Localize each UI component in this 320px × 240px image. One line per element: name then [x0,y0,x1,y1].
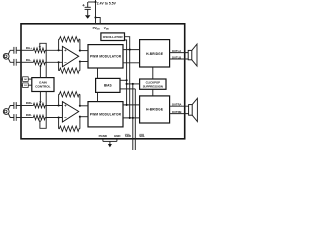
wire bias stub A [120,79,127,81]
wire cap to ground [87,9,89,15]
block PWM MODULATOR left channel [88,45,123,68]
wire cap to pin INL- [16,61,21,63]
speaker left [188,50,192,59]
svg-text:INR+: INR+ [26,101,33,105]
svg-text:INL-: INL- [26,58,32,62]
wire amp out B left [80,61,88,63]
wire jack to cap bottom left [8,58,14,62]
wire SDL line [134,89,136,150]
wire oscillator output 2 [125,40,127,105]
block H-BRIDGE right channel [140,96,170,123]
svg-text:SDL: SDL [139,134,145,138]
wire cap to pin INL+ [16,49,21,51]
wire bias stub B [120,88,135,90]
wire amp out B right [80,116,88,118]
wire jack to cap bottom right [8,114,14,118]
svg-text:PWM MODULATOR: PWM MODULATOR [90,112,122,116]
block H-BRIDGE left channel [140,40,170,67]
minus input mark left [64,61,66,63]
block CLICKPOP SUPPRESSION [140,79,166,89]
capacitor input INR+ [13,102,15,109]
wire to amp INL- [46,61,62,63]
svg-text:GAIN: GAIN [39,81,48,85]
jack right [3,109,9,115]
block GAIN CONTROL [32,78,54,92]
wire SDR line [132,84,134,150]
node amp input INR- [58,116,60,118]
jack left [3,53,9,59]
pin box G0 [23,77,29,82]
block BIAS [96,78,120,92]
wire amp out A right [80,105,88,107]
svg-text:H-BRIDGE: H-BRIDGE [146,108,163,112]
speaker right [189,105,193,116]
wire jack to cap top left [8,50,14,54]
capacitor input INR- [13,114,15,121]
wire supply vertical to PVDD pin [95,0,97,24]
capacitor C1 [85,6,91,8]
svg-text:2.4V to 5.5V: 2.4V to 5.5V [97,2,117,6]
wire input INR+ [21,105,33,107]
wire amp out A left [80,50,88,52]
capacitor input INL+ [13,47,15,54]
op-amp right [62,102,78,122]
node supply branch [94,16,96,18]
ground bottom [109,141,111,144]
wire cap to pin INR+ [16,105,21,107]
wire jack to cap top right [8,106,14,110]
wire gain control to INR- resistor wiper [40,92,46,129]
pin box G1 [23,83,29,88]
svg-text:PWM MODULATOR: PWM MODULATOR [90,54,122,58]
wire bias to pwm2 [97,92,99,101]
node supply top [94,1,96,3]
wire hbridge out B left [170,58,189,60]
svg-text:SDR: SDR [125,134,132,138]
node v2 bottom [129,117,131,119]
wire PGND stub [102,139,104,141]
wire pwm to hbridge B left [123,62,140,64]
wire to amp INR+ [46,105,62,107]
svg-text:GND: GND [114,134,120,138]
wire gain control to INR+ resistor wiper [39,92,41,102]
svg-text:BIAS: BIAS [104,84,112,88]
wire hbridge1 to clickpop [152,67,154,79]
wire cap to pin INR- [16,117,21,119]
node amp input INL+ [58,49,60,51]
node amp input INR+ [58,104,60,106]
block OSCILLATOR [101,33,125,41]
wire to decoupling cap [88,1,96,3]
feedback resistor top left [58,39,60,50]
IC boundary box [21,24,185,139]
ground [85,15,90,19]
svg-text:CONTROL: CONTROL [35,84,50,88]
node amp input INL- [58,61,60,63]
svg-text:CLICKPOP: CLICKPOP [146,81,161,85]
capacitor input INL- [13,59,15,66]
block PWM MODULATOR right channel [88,102,123,127]
capacitor C1 polarity + [82,4,84,6]
wire pwm to hbridge B right [123,117,140,119]
resistor input INR- [33,115,47,120]
wire hbridge out A right [170,105,189,107]
plus input mark right [64,105,66,107]
wire GND stub [116,139,118,141]
resistor input INL- [33,60,47,65]
wire branch to VDD pin [96,18,101,24]
feedback resistor bottom right [58,118,60,129]
wire gain control to INL- resistor wiper [39,67,41,78]
svg-text:OSCILLATOR: OSCILLATOR [103,35,124,39]
wire hbridge out A left [170,52,189,54]
wire oscillator output [125,37,130,118]
wire to clickpop suppression [127,83,140,85]
wire input INL+ [21,49,33,51]
resistor input INR+ [33,103,47,108]
feedback resistor bottom left [58,62,60,70]
svg-text:INL+: INL+ [26,46,33,50]
wire to amp INL+ [46,49,62,51]
svg-text:SUPPRESSION: SUPPRESSION [143,85,163,89]
svg-text:PGND: PGND [99,134,107,138]
minus input mark right [64,117,66,119]
resistor input INL+ [33,48,47,53]
wire hbridge out B right [170,113,189,115]
feedback resistor top right [58,94,60,105]
svg-text:INR-: INR- [26,113,32,117]
svg-text:H-BRIDGE: H-BRIDGE [146,52,163,56]
wire pwm to hbridge A right [123,104,140,106]
wire G0 to gain control [28,78,32,80]
wire gain control to INL+ resistor wiper [40,43,46,77]
plus input mark left [64,49,66,51]
wire pwm1 to bias [97,68,99,78]
op-amp left [62,46,78,66]
wire to amp INR- [46,117,62,119]
wire ground bar [103,140,117,142]
wire input INL- [21,61,33,63]
wire clickpop to hbridge2 [152,89,154,96]
wire G0 stub [21,78,23,80]
node v2 at left pwm wire [129,49,131,51]
wire G1 to gain control [28,84,32,86]
wire input INR- [21,117,33,119]
wire G1 stub [21,84,23,86]
wire pwm to hbridge A left [123,49,140,51]
